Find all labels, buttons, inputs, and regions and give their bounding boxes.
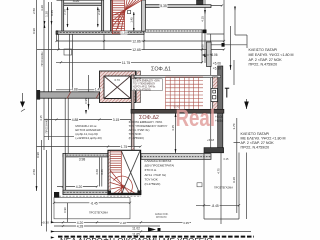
svg-text:-6.45: -6.45 — [90, 201, 97, 205]
svg-text:ΚΛΕΙΣΤΟ ΠΑΤΑΡΙ: ΚΛΕΙΣΤΟ ΠΑΤΑΡΙ — [241, 132, 270, 136]
svg-text:0.90: 0.90 — [32, 28, 36, 34]
svg-text:11.02: 11.02 — [132, 227, 140, 231]
svg-text:ΠΡΟΣΘΗΚΗ: ΠΡΟΣΘΗΚΗ — [40, 52, 44, 67]
svg-text:1.20: 1.20 — [44, 11, 48, 17]
svg-text:ΣΟΦ.Δ1: ΣΟΦ.Δ1 — [151, 66, 171, 72]
svg-text:1.75: 1.75 — [121, 145, 127, 149]
svg-text:1.45: 1.45 — [130, 17, 134, 23]
svg-text:4.88: 4.88 — [71, 88, 77, 92]
svg-text:(Ν.4759/20): (Ν.4759/20) — [129, 136, 144, 140]
svg-text:Real: Real — [176, 105, 216, 132]
svg-text:+5.94: +5.94 — [215, 119, 223, 123]
svg-text:ΚΛΕΙΣΤΟ ΠΑΤΑΡΙ: ΚΛΕΙΣΤΟ ΠΑΤΑΡΙ — [249, 48, 278, 52]
svg-text:ΑΡ. 2 <ΠΑΡ. 27 ΝΟΚ: ΑΡ. 2 <ΠΑΡ. 27 ΝΟΚ — [249, 58, 283, 62]
svg-text:ΠΡΟΣΤΕΓΑΣΜΑ: ΠΡΟΣΤΕΓΑΣΜΑ — [89, 210, 108, 214]
svg-text:ΑΡ.11 <ΠΑΡ. 6ε): ΑΡ.11 <ΠΑΡ. 6ε) — [145, 173, 167, 177]
svg-text:+5.06: +5.06 — [213, 62, 221, 66]
svg-text:3.15: 3.15 — [113, 118, 120, 122]
svg-text:0.90: 0.90 — [63, 207, 67, 213]
svg-text:2.50: 2.50 — [32, 169, 36, 175]
svg-text:2.18: 2.18 — [120, 221, 126, 225]
svg-text:3.35: 3.35 — [183, 221, 189, 225]
svg-text:ΑΡ. 2 <ΠΑΡ. 27 ΝΟΚ: ΑΡ. 2 <ΠΑΡ. 27 ΝΟΚ — [241, 141, 275, 145]
svg-text:ΜΕ ΕΛΕΥΘ. ΥΨΟΣ <1.80 Μ: ΜΕ ΕΛΕΥΘ. ΥΨΟΣ <1.80 Μ — [241, 136, 286, 140]
svg-text:4.15: 4.15 — [201, 16, 205, 22]
svg-text:1.45: 1.45 — [95, 88, 101, 92]
svg-text:ΠΡΟΣ. Ν.4759/20: ΠΡΟΣ. Ν.4759/20 — [241, 146, 270, 150]
svg-text:(Ν.4759/20): (Ν.4759/20) — [145, 182, 161, 186]
svg-text:0.95: 0.95 — [84, 98, 88, 104]
svg-text:4.75: 4.75 — [217, 168, 221, 174]
svg-text:ΠΡΟΣΤΕΓΑΣΜΑ: ΠΡΟΣΤΕΓΑΣΜΑ — [214, 186, 233, 190]
svg-text:4.88: 4.88 — [72, 118, 79, 122]
svg-text:1.20: 1.20 — [121, 31, 127, 35]
svg-text:ΔΕΝ ΠΡΟΣΜΕΤΡΑΤΑΙ: ΔΕΝ ΠΡΟΣΜΕΤΡΑΤΑΙ — [145, 164, 175, 168]
svg-text:+5.30: +5.30 — [213, 66, 221, 70]
svg-text:3.98: 3.98 — [79, 157, 86, 161]
svg-text:ΤΟΥ ΥΠΟΚΕΙΜΕΝΟΥ: ΤΟΥ ΥΠΟΚΕΙΜΕΝΟΥ — [133, 84, 156, 86]
svg-text:ΠΡΟΣ. Ν.4759/20: ΠΡΟΣ. Ν.4759/20 — [249, 63, 278, 67]
svg-text:4.60: 4.60 — [95, 169, 99, 175]
svg-text:2.50: 2.50 — [32, 8, 36, 14]
svg-text:ΝΟΚ (Ν.4759/20): ΝΟΚ (Ν.4759/20) — [133, 89, 151, 91]
svg-text:+0.30: +0.30 — [41, 220, 49, 224]
svg-text:0.70: 0.70 — [114, 78, 120, 82]
svg-text:(+4238/14,αρθρ.20): (+4238/14,αρθρ.20) — [75, 136, 101, 140]
svg-text:ΜΕ ΕΛΕΥΘ. ΥΨΟΣ <1.80 Μ: ΜΕ ΕΛΕΥΘ. ΥΨΟΣ <1.80 Μ — [249, 53, 294, 57]
svg-text:9.18: 9.18 — [232, 177, 236, 183]
svg-text:4.28: 4.28 — [77, 225, 84, 229]
svg-text:2.30: 2.30 — [62, 9, 66, 15]
svg-text:0.60: 0.60 — [201, 44, 205, 50]
svg-text:ΣΟΦΙΤΑ ΕΜΒΑΔΟΥ <50%: ΣΟΦΙΤΑ ΕΜΒΑΔΟΥ <50% — [133, 80, 160, 83]
svg-text:ΣΤΟ Σ.Δ.: ΣΤΟ Σ.Δ. — [145, 168, 157, 172]
svg-text:0.45: 0.45 — [50, 10, 54, 16]
svg-text:3.70: 3.70 — [232, 123, 236, 129]
svg-text:4.20: 4.20 — [73, 0, 80, 3]
svg-text:11.75: 11.75 — [122, 61, 130, 65]
svg-text:ΧΩΡΟΥ ΑΡ.11 ΠΑΡ.6ε: ΧΩΡΟΥ ΑΡ.11 ΠΑΡ.6ε — [133, 85, 155, 88]
svg-text:+6.06: +6.06 — [210, 53, 218, 57]
svg-text:ΚΛΙΜΑΚΑ ΣΟΦΙΤΑΣ: ΚΛΙΜΑΚΑ ΣΟΦΙΤΑΣ — [145, 159, 172, 163]
svg-text:4.15: 4.15 — [39, 115, 43, 121]
svg-text:0.45: 0.45 — [100, 169, 104, 175]
svg-text:ΜΗ ΒΑΤΟ: ΜΗ ΒΑΤΟ — [156, 216, 167, 219]
svg-text:4.20: 4.20 — [76, 185, 83, 189]
svg-text:+5.06: +5.06 — [215, 115, 223, 119]
svg-text:+5.18: +5.18 — [207, 138, 215, 142]
svg-text:ΠΡΟΣΘΗΚΗ: ΠΡΟΣΘΗΚΗ — [44, 119, 48, 134]
svg-text:0.15: 0.15 — [224, 158, 229, 161]
svg-text:5.35: 5.35 — [160, 4, 167, 8]
svg-text:12.65: 12.65 — [132, 48, 141, 52]
svg-text:ΤΟΥ ΝΟΚ: ΤΟΥ ΝΟΚ — [145, 177, 158, 181]
svg-text:0.90: 0.90 — [36, 152, 40, 158]
svg-text:4.15: 4.15 — [171, 125, 175, 131]
svg-text:-8.45: -8.45 — [211, 204, 218, 208]
svg-text:3.20: 3.20 — [40, 5, 44, 11]
svg-text:12.86: 12.86 — [132, 40, 141, 44]
